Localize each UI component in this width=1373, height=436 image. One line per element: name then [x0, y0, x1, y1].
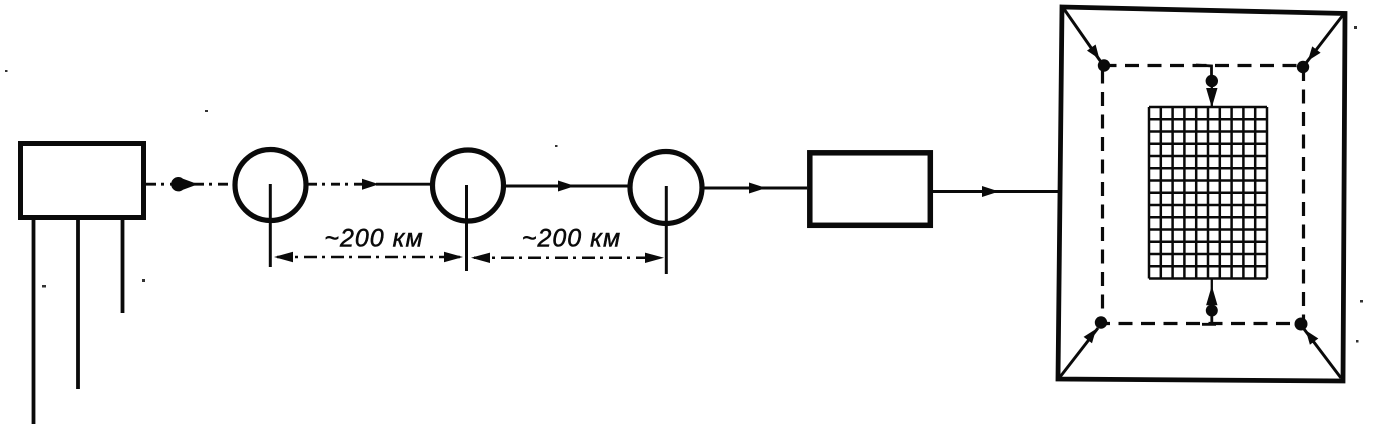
- corner arrow top-right: [1306, 15, 1343, 63]
- arrowhead on wire repeater3->receiver: [749, 183, 766, 194]
- dimension arrow 1 left head: [274, 252, 293, 262]
- bottom mid arrow: dashed edge to grid: [1202, 311, 1216, 324]
- wire: receiver to screen frame: [933, 190, 1058, 193]
- receiver box: [810, 153, 931, 226]
- screen inner dashed rectangle: [1103, 66, 1304, 324]
- dimension arrow 1 (repeater1 to repeater2 distance): [277, 256, 461, 259]
- antenna leg 1: [32, 220, 36, 424]
- corner arrow bottom-left: [1060, 328, 1098, 377]
- repeater 2 drop line: [465, 185, 468, 271]
- corner node dot top-right: [1297, 61, 1309, 73]
- svg-text:~200 км: ~200 км: [324, 225, 423, 253]
- transmitter station box: [21, 144, 144, 218]
- dimension arrow 2 (repeater2 to repeater3 distance): [474, 257, 660, 260]
- screen outer frame (hand-drawn quadrilateral): [1058, 7, 1345, 381]
- dimension arrow 1 right head: [444, 252, 463, 262]
- antenna leg 3: [121, 220, 125, 313]
- arrowhead on wire transmitter->repeater1: [171, 177, 198, 191]
- arrowhead on wire repeater2->repeater3: [558, 181, 575, 192]
- corner arrow bottom-right: [1304, 329, 1341, 378]
- arrowhead on wire receiver->screen: [982, 186, 999, 197]
- corner node dot top-left: [1098, 59, 1110, 71]
- antenna leg 2: [76, 220, 80, 389]
- dimension arrow 2 right head: [645, 253, 664, 263]
- repeater 3 (circle): [630, 152, 702, 224]
- repeater 1 drop line: [269, 184, 272, 267]
- corner node dot bottom-left: [1095, 316, 1107, 328]
- wire: transmitter to repeater 1 (dash-dot): [146, 183, 233, 186]
- corner node dot bottom-right: [1295, 318, 1308, 331]
- raster grid: [1149, 107, 1267, 279]
- arrowhead on wire repeater1->repeater2: [362, 179, 379, 190]
- corner arrow top-left: [1064, 9, 1101, 62]
- dimension arrow 2 left head: [471, 253, 490, 263]
- wire: repeater 1 to repeater 2 (dash-dot then solid): [308, 183, 362, 186]
- svg-text:~200 км: ~200 км: [522, 225, 621, 253]
- top mid arrow: dashed edge to grid: [1196, 65, 1212, 76]
- scan speckles: [5, 26, 1363, 343]
- repeater 1 (circle): [235, 150, 306, 221]
- wire: repeater 2 to repeater 3 (solid): [504, 185, 628, 188]
- wire: repeater 3 to receiver (solid): [703, 187, 807, 190]
- repeater 2 (circle): [433, 150, 504, 221]
- repeater 3 drop line: [665, 186, 668, 274]
